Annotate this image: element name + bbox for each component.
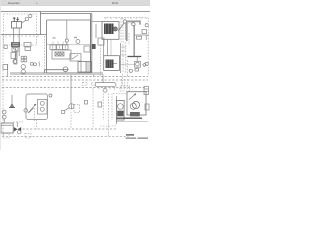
svg-text:Rohr: Rohr [112,1,118,5]
svg-text:+: + [36,1,38,5]
svg-text:Hauptteil: Hauptteil [8,1,20,5]
